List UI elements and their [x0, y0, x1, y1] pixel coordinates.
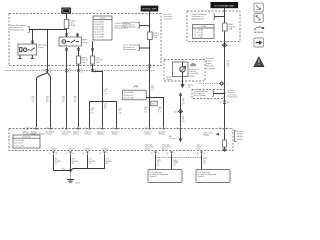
module pin 3/G at x=102.5: [98, 127, 107, 136]
ground wire B: [70, 154, 72, 170]
svg-text:C2 = 64 GY: C2 = 64 GY: [14, 143, 24, 145]
svg-text:1.4: 1.4: [55, 163, 58, 165]
svg-text:(w/ gauges): (w/ gauges): [206, 68, 216, 70]
svg-text:S161: S161: [152, 104, 156, 106]
svg-text:Control: Control: [169, 137, 175, 140]
svg-text:Ground: Ground: [50, 148, 56, 151]
svg-text:C1234: C1234: [200, 26, 205, 28]
svg-text:C1 = 68 WH: C1 = 68 WH: [14, 140, 24, 142]
svg-text:S110: S110: [62, 168, 66, 170]
right fuse box dashed boundary: [187, 11, 240, 42]
module pin 6/E at x=78.0: [73, 127, 82, 136]
module pin 7/A at x=27.5: [23, 127, 36, 136]
dotted continuation link to main wire: [200, 83, 220, 85]
svg-text:3.0: 3.0: [74, 101, 77, 103]
relay K1 bottom pin stubs: [19, 55, 34, 59]
MIL control arrow inside module: [169, 129, 182, 142]
reference box PL2 information: [148, 170, 182, 183]
ground pin at x=53.5: [49, 148, 58, 155]
fuse F1: [77, 56, 89, 64]
svg-text:3.0: 3.0: [46, 101, 49, 103]
svg-text:Voltage: Voltage: [85, 133, 91, 136]
internal signal arrow (lamp driver): [203, 132, 219, 136]
svg-text:C2: C2: [49, 72, 51, 74]
ground junction dot: [62, 168, 72, 171]
ground wire D: [88, 154, 105, 168]
svg-text:Voltage: Voltage: [62, 133, 68, 136]
svg-text:C7 = 2 WH: C7 = 2 WH: [94, 37, 104, 39]
svg-text:30: 30: [69, 69, 71, 71]
svg-text:Systems: Systems: [198, 175, 205, 178]
svg-text:HOT IN RUN AND START: HOT IN RUN AND START: [215, 5, 235, 8]
svg-text:Gauge: Gauge: [189, 75, 195, 77]
label box HOT AT ALL TIMES (small, over fuse block): [62, 8, 71, 13]
svg-text:0.8: 0.8: [104, 93, 107, 95]
svg-text:Wiring Systems: Wiring Systems: [123, 26, 136, 29]
W3 wire label top: [182, 99, 185, 105]
svg-text:Voltage: Voltage: [203, 134, 209, 137]
connector pin mark at x=92.5: [91, 69, 97, 74]
svg-text:1.4: 1.4: [89, 163, 92, 165]
svg-text:1.5: 1.5: [158, 111, 161, 113]
svg-text:C2: C2: [81, 72, 83, 74]
serial data pin at x=201.5: [197, 151, 206, 154]
serial wire E drop: [156, 154, 161, 169]
wire fuse F2 down with jog to splice bus: [93, 64, 103, 101]
svg-text:C2: C2: [95, 72, 97, 74]
module connector table: [13, 135, 40, 148]
svg-text:3.0: 3.0: [106, 163, 109, 165]
serial data signal text 2: [162, 144, 171, 151]
inline connector mark on W4: [219, 101, 229, 104]
svg-text:0.8: 0.8: [188, 87, 191, 89]
svg-text:Wiring Systems: Wiring Systems: [194, 94, 207, 97]
svg-text:0.8: 0.8: [173, 164, 176, 166]
ground pin at x=70.5: [66, 148, 75, 155]
ground wire label at 54.6: [55, 159, 62, 165]
fuse F2: [91, 56, 104, 64]
svg-text:Voltage: Voltage: [98, 133, 104, 136]
relay K2 bottom-left wire to connector: [65, 47, 68, 127]
wire label at 31.4,97.6: [31, 97, 34, 103]
svg-text:S104: S104: [174, 111, 178, 113]
svg-text:Schematics: Schematics: [163, 17, 173, 20]
svg-text:Voltage: Voltage: [145, 133, 151, 136]
instrument cluster dashed box: [164, 60, 205, 82]
wire label at 144.2,108.0: [144, 107, 147, 113]
relay K2: [59, 37, 87, 46]
relay K1 coil feed wire: [31, 30, 34, 45]
wire label at 103.8,104.6: [104, 104, 107, 110]
note Power Distribution Schematics (inside fuse block, left): [10, 24, 29, 33]
wire W3 continuation triangle (from MIL): [179, 92, 183, 127]
ground wire label at 105.6: [106, 159, 113, 165]
svg-text:Bus (+): Bus (+): [162, 149, 168, 151]
wire label at 61.9,97.6: [62, 97, 65, 103]
wire fusible link to relay K2: [65, 29, 68, 38]
splice diamond on W3: [174, 110, 183, 114]
fuse on W4: [223, 23, 236, 31]
wire bus from fuse F2 splice: [90, 101, 117, 128]
svg-text:Details: Details: [100, 17, 106, 20]
underhood fuse block dashed boundary: [9, 14, 161, 66]
svg-text:Voltage: Voltage: [112, 133, 118, 136]
svg-text:Voltage: Voltage: [159, 133, 165, 136]
wire W2 branch from W1: [150, 98, 164, 128]
module pin 2/B at x=224.5: [220, 127, 229, 130]
svg-text:S3 = 64 GY: S3 = 64 GY: [124, 95, 134, 97]
module pin 8/C at x=50.5: [46, 127, 55, 136]
serial data pin at x=155.5: [151, 151, 160, 154]
svg-text:S2 = 48 BK: S2 = 48 BK: [124, 92, 134, 94]
relay K2 bottom-right wire to fuse F1: [77, 47, 80, 56]
warning triangle icon: [254, 57, 264, 67]
svg-text:C3 = 51 NA: C3 = 51 NA: [14, 144, 24, 147]
MIL label text: [189, 68, 199, 77]
toolbar icon next-arrow: [254, 38, 264, 47]
svg-text:C2: C2: [69, 72, 71, 74]
MIL output stub wire and continuation triangle: [180, 77, 193, 90]
module pin 1/L at x=180.5: [176, 127, 184, 130]
note right of fuse block edge: [163, 13, 173, 20]
svg-text:Ground: Ground: [101, 148, 107, 151]
wire label at 45.9,97.6: [46, 97, 49, 103]
wire W1 main vertical: [149, 11, 151, 127]
relay K2 top-right stub: [76, 33, 79, 37]
svg-text:0.8: 0.8: [62, 101, 65, 103]
serial data pin at x=171.5: [167, 151, 175, 154]
svg-text:0.8: 0.8: [91, 112, 94, 114]
wire label at 73.6,97.6: [74, 97, 77, 103]
svg-text:Distribution): Distribution): [227, 95, 237, 98]
ground wire label at 71.6: [72, 159, 79, 165]
module pin 2/D at x=66.6: [62, 127, 71, 136]
connector diamond under right fuse box: [222, 43, 230, 47]
fuse on W1: [148, 32, 159, 40]
svg-text:G103: G103: [75, 182, 79, 184]
class 2 serial data text: [197, 145, 203, 151]
small dashed note box on W4: [192, 90, 226, 99]
right fuse box detail table: [193, 25, 215, 40]
svg-text:3.0: 3.0: [72, 163, 75, 165]
wire label above F2 splice: [104, 89, 107, 95]
note text right of cluster box: [206, 57, 216, 70]
svg-text:Data: Data: [197, 148, 201, 151]
svg-text:Ground: Ground: [84, 148, 90, 151]
inline connector C2 dotted row: [5, 70, 155, 72]
svg-text:Voltage: Voltage: [73, 133, 79, 136]
svg-text:0.8: 0.8: [227, 66, 230, 68]
ground wire A: [54, 154, 70, 170]
module pin 1/F at x=89.5: [85, 127, 93, 136]
wire W4 main vertical: [224, 8, 226, 128]
inline connector marks on W1 at fuse block exit: [148, 65, 154, 68]
svg-text:S4: S4: [229, 45, 231, 47]
branch wire from note to feed wire: [29, 29, 66, 31]
svg-text:(ECM): (ECM): [237, 139, 243, 141]
text block right of W4: [227, 90, 237, 98]
svg-text:Cluster: Cluster: [166, 78, 172, 81]
toolbar icon jump-arrow: [254, 27, 264, 33]
branch from table to W1 with junction dot: [146, 97, 151, 99]
reference table on W1: [123, 90, 147, 100]
wire label at 90.8,109.0: [91, 108, 94, 114]
connector hoop above table: [134, 86, 138, 87]
svg-text:Relay: Relay: [82, 42, 87, 44]
ground pin at x=87.5: [83, 148, 92, 155]
svg-text:0.8: 0.8: [182, 121, 185, 123]
W3 wire label bottom: [182, 117, 185, 123]
branch note 2 on W1: [123, 44, 150, 51]
svg-text:0.8: 0.8: [182, 103, 185, 105]
svg-text:0.8 BK: 0.8 BK: [69, 25, 76, 27]
svg-text:C3 = 51 NA: C3 = 51 NA: [94, 25, 104, 28]
svg-text:S4 = 51 NA: S4 = 51 NA: [124, 97, 134, 100]
svg-text:0.8: 0.8: [118, 112, 121, 114]
internal ground triangle: [222, 149, 227, 153]
wire from label box to fusible link: [66, 13, 68, 19]
serial data dotted pair line: [156, 157, 202, 159]
wire label at 158.4,108.0: [158, 107, 161, 113]
module name bracket right: [235, 130, 244, 141]
label box HOT AT ALL TIMES (center): [141, 6, 158, 11]
svg-text:0.8: 0.8: [203, 163, 206, 165]
serial wire F drop: [172, 154, 180, 169]
MIL indicator lamp: [180, 62, 186, 77]
ground lead dashed: [70, 172, 72, 179]
wire label at 118.4,109.0: [118, 108, 121, 114]
ground pin at x=104.5: [100, 148, 109, 155]
cloud icon: [190, 63, 196, 66]
toolbar icon zoom-out: [254, 14, 263, 23]
toolbar icon zoom-in: [254, 3, 263, 12]
svg-text:F: F: [174, 153, 175, 155]
fusible link F-A: [64, 20, 76, 29]
module pin 4/B at x=36.0: [31, 127, 44, 136]
svg-text:Wiring Systems: Wiring Systems: [192, 17, 205, 20]
connector pin mark at x=66.5: [65, 69, 71, 74]
W4 wire label: [227, 61, 230, 67]
svg-text:0.8: 0.8: [157, 164, 160, 166]
svg-text:0.8: 0.8: [104, 108, 107, 110]
ground G103 symbol: [67, 180, 80, 185]
svg-text:36: 36: [81, 69, 83, 71]
splice diamond linking dotted continuation: [220, 82, 229, 86]
connector pin mark at x=47.0: [46, 69, 52, 74]
note right of detail table: [115, 22, 131, 30]
svg-text:Relay: Relay: [39, 47, 44, 49]
svg-text:5.0: 5.0: [31, 101, 34, 103]
svg-text:10 A: 10 A: [96, 61, 101, 64]
svg-text:1.5: 1.5: [144, 111, 147, 113]
svg-text:Control: Control: [46, 133, 53, 136]
svg-text:Connectors: Connectors: [22, 136, 31, 139]
svg-text:L: L: [183, 128, 184, 130]
wire fuse F1 to module pin: [78, 64, 80, 127]
internal resistor on W4: [223, 129, 227, 148]
connector pin mark at x=78.5: [77, 69, 83, 74]
serial wire G drop: [202, 154, 208, 169]
reference box PL2 serial: [196, 170, 230, 183]
serial data signal text 1: [145, 144, 154, 151]
svg-text:C4 = 2 WH: C4 = 2 WH: [194, 37, 204, 39]
svg-text:Wiring Systems: Wiring Systems: [123, 48, 136, 51]
svg-text:C2: C2: [152, 66, 154, 68]
relay K1: [18, 44, 48, 55]
svg-text:Ground: Ground: [67, 148, 73, 151]
fuse F2 feed wire: [91, 41, 94, 56]
module pin 5/H at x=116.5: [112, 127, 121, 136]
cluster inner frame: [173, 62, 189, 77]
svg-text:Control: Control: [237, 133, 244, 136]
branch note 1 on W1: [123, 21, 150, 28]
ground wire C: [71, 154, 88, 170]
note inside right fuse box: [192, 13, 225, 20]
wire label above W1 junction: [151, 85, 154, 91]
module pin 2/K at x=163.5: [159, 127, 168, 136]
module pin 9/J at x=149.5: [145, 127, 153, 136]
svg-text:1.5: 1.5: [151, 90, 154, 92]
svg-text:14: 14: [219, 102, 221, 104]
label box HOT IN RUN AND START: [211, 3, 238, 8]
ground wire label at 88.6: [89, 159, 96, 165]
engine control module dashed boundary: [9, 129, 233, 151]
fuse block detail table: [93, 16, 112, 40]
svg-text:F: F: [92, 128, 93, 130]
wire from fuse block edge (pin 30): [0, 0, 1, 1]
cluster bottom-left text: [166, 76, 173, 81]
svg-text:Systems: Systems: [150, 175, 157, 178]
splice label box under W1 junction: [151, 101, 157, 106]
svg-text:Bus (-): Bus (-): [145, 149, 151, 151]
svg-text:24: 24: [49, 69, 51, 71]
wire drop from branch to connector row (left feed): [37, 30, 51, 128]
svg-text:42: 42: [95, 69, 97, 71]
svg-text:Wiring Systems: Wiring Systems: [10, 29, 24, 32]
